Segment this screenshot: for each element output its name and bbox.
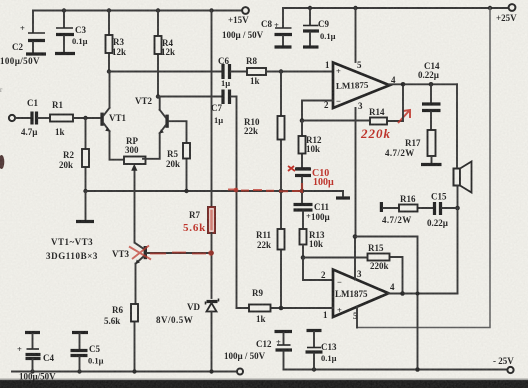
resistor R11 bbox=[256, 191, 285, 308]
capacitor C7 bbox=[211, 90, 237, 126]
resistor R9 bbox=[237, 288, 334, 324]
node out2-R15 bbox=[400, 291, 405, 296]
node ground bus-R10R11 bbox=[279, 189, 284, 194]
node R2-ground line bbox=[83, 189, 87, 193]
red dashes ground bus bbox=[228, 188, 301, 193]
node VD-rail bbox=[209, 369, 213, 373]
node C4-rail bbox=[30, 369, 34, 373]
node speaker-zobel2 bbox=[455, 206, 460, 211]
wire +15V top rail bbox=[33, 10, 242, 12]
wire U2 pin2 bbox=[303, 258, 333, 281]
node R6-rail bbox=[132, 369, 136, 373]
capacitor C15 bbox=[427, 192, 458, 229]
capacitor C13 bbox=[306, 331, 337, 370]
ground for C3 bbox=[55, 52, 75, 55]
capacitor C10 bbox=[288, 166, 334, 191]
resistor R2 bbox=[59, 118, 89, 191]
op-amp U1 LM1875 upper bbox=[324, 60, 396, 111]
svg-text:-15V: -15V bbox=[230, 379, 249, 388]
ground for C8 bbox=[275, 45, 292, 48]
resistor R12 bbox=[299, 121, 322, 168]
red mark C10 stem bbox=[301, 183, 303, 193]
resistor R17 bbox=[385, 130, 436, 163]
wire U1 pin2 bbox=[302, 101, 333, 121]
capacitor C4 bbox=[17, 333, 56, 382]
node R4-VT2 collector bbox=[156, 94, 160, 98]
node R3-VT1 collector bbox=[107, 69, 111, 73]
wire speaker to out2 bbox=[457, 208, 459, 294]
terminal -15V bbox=[230, 369, 249, 388]
wire C7 to R9 column bbox=[236, 97, 238, 309]
transistor VT3 bbox=[112, 243, 212, 304]
wire U1 output bbox=[390, 84, 458, 121]
capacitor C11 bbox=[294, 191, 331, 229]
capacitor C1 bbox=[21, 98, 50, 137]
resistor R15 bbox=[303, 243, 403, 294]
capacitor C6 bbox=[218, 56, 247, 88]
node ground bus-C10-C11 bbox=[300, 189, 305, 194]
wire signal ground bus bbox=[86, 190, 344, 192]
capacitor C12 bbox=[224, 332, 292, 370]
node out2 crossing bbox=[416, 292, 420, 296]
terminal -25V bbox=[493, 356, 514, 373]
wire -15V rail bbox=[12, 371, 237, 373]
node rail-pin5 bbox=[353, 6, 357, 10]
wire U2 output bbox=[389, 293, 458, 295]
node R1-R2 bbox=[83, 116, 87, 120]
node R9-R11 bbox=[279, 306, 284, 311]
ground for C2 bbox=[26, 52, 46, 55]
capacitor C5 bbox=[71, 333, 104, 372]
wire +25V top rail bbox=[283, 7, 509, 9]
node R13-R15-pin2 bbox=[301, 255, 306, 260]
ground for bus bbox=[336, 191, 350, 198]
left edge artifacts bbox=[0, 86, 4, 169]
label VT1-VT3 type bbox=[46, 237, 98, 261]
red scribble VT3 bbox=[129, 246, 214, 260]
capacitor C2 bbox=[0, 11, 45, 67]
node R8-R10 bbox=[279, 69, 283, 73]
node C13-rail bbox=[312, 367, 316, 371]
wire U1U2 pin3 column bbox=[354, 108, 357, 280]
terminal +15V bbox=[222, 7, 264, 40]
wire first-stage output upper y71 bbox=[109, 71, 222, 73]
wire +25V right column to lower pin5 bbox=[357, 8, 490, 328]
resistor R5 bbox=[166, 122, 190, 191]
ground for R16 bbox=[380, 202, 383, 212]
capacitor C14 bbox=[418, 61, 441, 130]
capacitor C9 bbox=[303, 8, 336, 46]
resistor R8 bbox=[246, 56, 333, 86]
resistor R16 bbox=[382, 194, 433, 225]
terminal input bbox=[9, 115, 30, 121]
resistor R1 bbox=[50, 100, 101, 137]
transistor VT2 bbox=[135, 96, 187, 159]
node rail-R7 column bbox=[209, 8, 213, 12]
resistor R3 bbox=[106, 11, 127, 71]
wire pin5 U1 bbox=[355, 8, 357, 62]
transistor VT1 bbox=[100, 72, 126, 160]
scan edge black band bbox=[0, 379, 528, 388]
node R7-VT3 base bbox=[209, 251, 214, 256]
node rail-R3 bbox=[107, 8, 111, 12]
resistor R6 bbox=[104, 304, 138, 372]
capacitor C3 bbox=[56, 11, 88, 53]
node rail-C9 bbox=[308, 6, 312, 10]
potentiometer RP bbox=[124, 136, 146, 243]
node rail-right column bbox=[488, 6, 492, 10]
resistor R13 bbox=[300, 229, 325, 258]
node U1 out-C14 bbox=[429, 82, 434, 87]
node U1 out-feedback bbox=[401, 82, 406, 87]
node U1 feedback bbox=[300, 118, 305, 123]
wire pin3 to -25V bbox=[355, 237, 418, 370]
node rail-R4 bbox=[156, 8, 160, 12]
wire U2 pin5 bbox=[356, 307, 358, 328]
resistor R7 bbox=[183, 207, 215, 298]
capacitor C8 bbox=[261, 8, 292, 46]
resistor R10 bbox=[244, 72, 285, 192]
terminal +25V bbox=[496, 4, 517, 23]
node pin3 tee bbox=[353, 234, 358, 239]
red label 220k R14 bbox=[360, 110, 410, 141]
ground for R2 bbox=[76, 191, 94, 222]
node C5-rail bbox=[77, 369, 81, 373]
node -25V-pin3 bbox=[415, 367, 420, 372]
wire R7 column upper bbox=[211, 11, 213, 208]
wire -25V rail bbox=[284, 369, 508, 371]
wire first-stage output lower y96 bbox=[158, 96, 222, 98]
zener diode VD bbox=[156, 299, 219, 372]
node R5-ground bus bbox=[184, 189, 188, 193]
ground for C9 bbox=[303, 45, 319, 48]
resistor R14 bbox=[302, 107, 403, 125]
node rail-C3 bbox=[62, 8, 66, 12]
ground for R17 bbox=[421, 163, 442, 166]
speaker BL bbox=[454, 84, 472, 208]
resistor R4 bbox=[155, 11, 176, 96]
op-amp U2 LM1875 lower bbox=[321, 269, 395, 321]
